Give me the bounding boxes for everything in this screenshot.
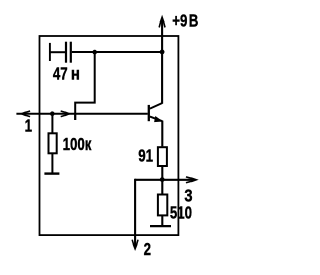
junction stub below base node [74, 114, 76, 120]
resistor R1 100к body [49, 133, 57, 153]
transistor VT1 emitter diagonal [150, 117, 162, 122]
+9V supply wire [161, 21, 163, 52]
+9V arrow [159, 15, 165, 28]
resistor R1 value label 100к [63, 136, 92, 155]
svg-text:н: н [71, 64, 80, 83]
svg-text:2: 2 [144, 240, 152, 259]
transistor VT1 emitter arrow [154, 116, 163, 122]
ground bar under R1 [44, 172, 59, 174]
arrow into base node [61, 111, 72, 117]
wire from output node down to terminal 2 [134, 179, 136, 246]
node junction dot input/100k [50, 111, 55, 116]
resistor R2 lead bottom to output node [161, 167, 163, 180]
collector wire up to +9V node [161, 52, 163, 104]
capacitor C1 left plate [65, 42, 67, 63]
resistor R3 510 lead top [161, 180, 163, 194]
resistor R1 100к lead top [51, 114, 53, 133]
capacitor C1 right plate [70, 42, 72, 63]
resistor R3 510 body [158, 195, 167, 216]
device box outline [40, 36, 179, 235]
svg-text:91: 91 [138, 147, 153, 166]
svg-text:510: 510 [170, 204, 192, 223]
svg-text:3: 3 [184, 186, 192, 205]
capacitor C1 value label 47 н [53, 65, 68, 84]
node junction dot at capacitor/base branch [92, 50, 97, 55]
wire from terminal bar to capacitor left plate [50, 51, 65, 53]
arrow down to terminal 2 [132, 240, 138, 251]
terminal 1 label [25, 117, 33, 136]
svg-text:100к: 100к [63, 136, 92, 155]
wire from capacitor node down to base node [75, 52, 95, 120]
node junction dot emitter/output [160, 177, 165, 182]
svg-text:+9: +9 [172, 12, 187, 31]
transistor VT1 collector diagonal [150, 103, 162, 109]
svg-text:В: В [189, 12, 199, 31]
svg-text:1: 1 [25, 117, 33, 136]
resistor R2 91 body [158, 147, 167, 166]
resistor R1 100к lead bottom [51, 154, 53, 173]
+9V label +9 В [172, 12, 187, 31]
emitter wire down to R2 [161, 121, 163, 147]
resistor R2 value label 91 [138, 147, 153, 166]
terminal 2 label [144, 240, 152, 259]
output wire node to terminal 3 [135, 179, 194, 181]
input wire terminal 1 to transistor base [16, 113, 147, 115]
capacitor C1 left terminal bar [49, 43, 51, 61]
wire from capacitor to +9V rail [72, 51, 162, 53]
terminal 3 label [184, 186, 192, 205]
resistor R3 510 lead bottom [161, 216, 163, 226]
node junction dot at +9V rail top [160, 50, 165, 55]
arrow out to terminal 1 [19, 111, 30, 117]
transistor VT1 base bar [148, 105, 150, 121]
svg-text:47: 47 [53, 65, 68, 84]
arrow out to terminal 3 [186, 177, 199, 183]
ground bar under R3 [150, 225, 171, 227]
resistor R3 value label 510 [170, 204, 192, 223]
